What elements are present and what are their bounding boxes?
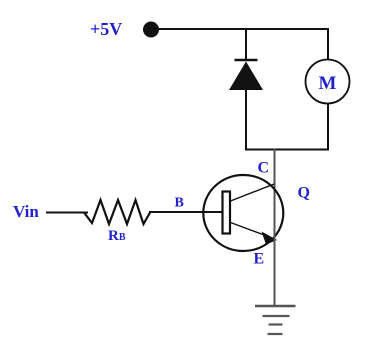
svg-text:Q: Q	[298, 185, 310, 202]
ground symbol	[255, 306, 296, 334]
wire: collector vertical into transistor	[274, 149, 276, 213]
svg-text:M: M	[319, 73, 337, 94]
svg-text:B: B	[175, 196, 184, 211]
svg-text:Vin: Vin	[13, 202, 39, 221]
svg-text:E: E	[254, 251, 265, 268]
diode D1 (flyback, pointing up)	[229, 62, 263, 91]
wire: Vin to resistor	[46, 212, 88, 214]
transistor Q base bar	[223, 192, 231, 234]
diode D1 cathode bar	[235, 59, 258, 62]
wire: resistor to transistor base	[149, 211, 223, 213]
wire: diode branch lower vertical	[245, 89, 247, 151]
wire: motor branch lower vertical	[327, 103, 329, 151]
wire: bottom rail joining diode and motor	[245, 149, 329, 151]
transistor Q collector stroke	[231, 184, 275, 201]
wire: +5V rail top horizontal	[158, 28, 328, 30]
transistor Q emitter stroke with arrow	[231, 223, 278, 245]
node: +5V junction dot	[143, 22, 159, 38]
wire: diode branch upper vertical	[245, 29, 247, 60]
svg-text:+5V: +5V	[90, 19, 122, 39]
svg-text:C: C	[258, 160, 270, 177]
transistor Q circle	[203, 175, 283, 251]
resistor RB zigzag	[84, 200, 150, 224]
wire: motor branch upper vertical	[327, 28, 329, 60]
motor M1 body	[306, 60, 350, 104]
wire: emitter to ground vertical	[274, 213, 276, 306]
